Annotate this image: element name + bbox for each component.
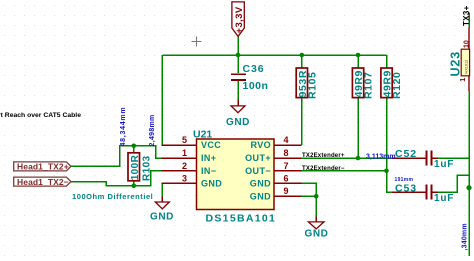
svg-text:1: 1 <box>460 78 467 82</box>
svg-text:R105: R105 <box>307 71 319 99</box>
svg-text:R107: R107 <box>363 71 375 99</box>
svg-text:HX1012: HX1012 <box>464 60 468 74</box>
svg-text:6: 6 <box>284 173 289 183</box>
svg-text:3,113mm: 3,113mm <box>366 154 396 161</box>
svg-text:1uF: 1uF <box>434 193 454 204</box>
svg-text:U21: U21 <box>193 129 212 141</box>
svg-text:5: 5 <box>182 135 187 145</box>
svg-text:100R: 100R <box>130 154 141 180</box>
svg-text:OUT+: OUT+ <box>245 153 271 163</box>
svg-text:Head1_TX2+: Head1_TX2+ <box>17 162 69 172</box>
svg-text:C36: C36 <box>243 63 265 75</box>
svg-text:GND: GND <box>201 179 222 189</box>
svg-text:TX2Extender−: TX2Extender− <box>302 166 345 172</box>
svg-text:2,498mm: 2,498mm <box>149 114 156 146</box>
svg-text:DS15BA101: DS15BA101 <box>206 213 277 225</box>
svg-text:U23: U23 <box>448 51 462 77</box>
svg-text:1: 1 <box>182 148 187 158</box>
svg-text:100n: 100n <box>243 80 269 92</box>
svg-text:OUT−: OUT− <box>245 166 271 176</box>
svg-text:IN+: IN+ <box>201 153 216 163</box>
svg-text:Head1_TX2−: Head1_TX2− <box>17 177 69 187</box>
svg-text:100Ohm Differentiel: 100Ohm Differentiel <box>72 192 153 201</box>
svg-text:10: 10 <box>463 40 470 48</box>
svg-text:GND: GND <box>250 191 271 201</box>
svg-text:VCC: VCC <box>201 140 221 150</box>
svg-text:+3,3V: +3,3V <box>234 6 245 33</box>
svg-text:7: 7 <box>284 161 289 171</box>
svg-text:GND: GND <box>226 117 250 128</box>
svg-text:GND: GND <box>304 228 328 239</box>
svg-text:191mm: 191mm <box>395 177 414 183</box>
svg-text:IN−: IN− <box>201 166 216 176</box>
svg-text:R120: R120 <box>391 71 403 99</box>
svg-text:rt Reach over CAT5 Cable: rt Reach over CAT5 Cable <box>0 112 81 119</box>
svg-text:2: 2 <box>182 161 187 171</box>
svg-text:C53: C53 <box>395 182 417 194</box>
svg-text:3: 3 <box>182 173 187 183</box>
svg-text:TX2Extender+: TX2Extender+ <box>302 153 345 159</box>
svg-text:4: 4 <box>284 135 289 145</box>
svg-text:GND: GND <box>150 211 174 222</box>
svg-text:48,344mm: 48,344mm <box>120 107 127 147</box>
svg-text:TX3+: TX3+ <box>462 5 471 26</box>
svg-text:1uF: 1uF <box>434 159 454 170</box>
svg-text:8: 8 <box>284 148 289 158</box>
svg-text:R103: R103 <box>142 155 153 181</box>
svg-text:,340mm: ,340mm <box>462 223 469 250</box>
svg-text:9: 9 <box>284 186 289 196</box>
svg-text:GND: GND <box>250 179 271 189</box>
svg-text:RVO: RVO <box>250 140 271 150</box>
svg-text:C52: C52 <box>395 148 417 160</box>
